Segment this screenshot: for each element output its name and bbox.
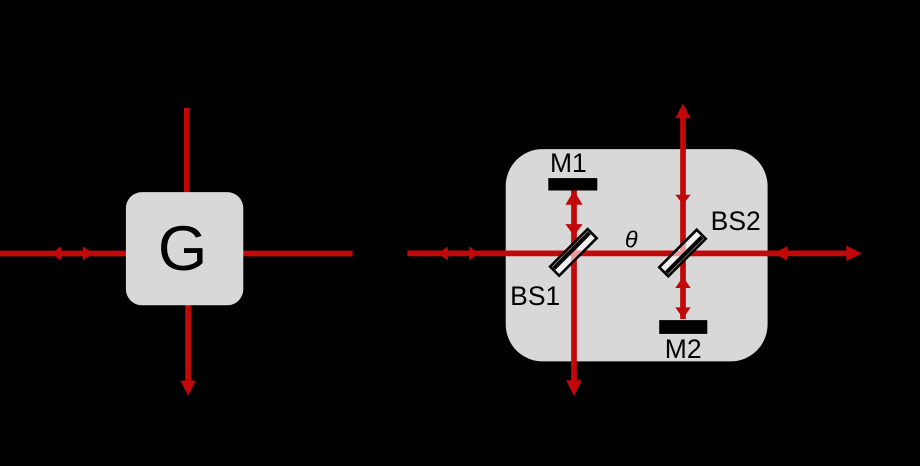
svg-text:θ: θ xyxy=(625,227,638,253)
svg-text:BS1: BS1 xyxy=(510,281,560,311)
svg-text:M2: M2 xyxy=(665,334,702,364)
svg-text:M1: M1 xyxy=(550,148,587,178)
svg-text:G: G xyxy=(158,214,207,284)
svg-text:BS2: BS2 xyxy=(711,206,761,236)
